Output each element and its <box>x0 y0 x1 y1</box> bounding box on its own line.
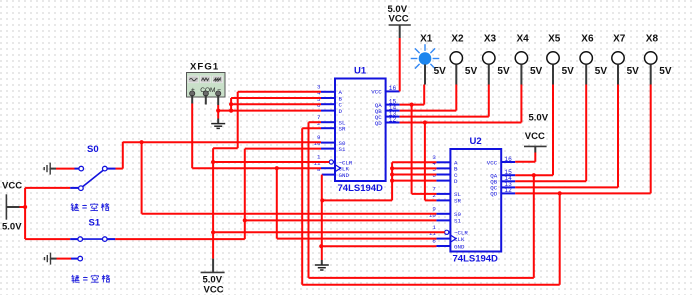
XFG1 waveform buttons <box>188 76 198 83</box>
svg-text:X4: X4 <box>517 34 530 45</box>
power VCC bottom bar <box>201 271 225 273</box>
switch S0 throw1 terminal <box>79 166 84 171</box>
svg-text:5.0V: 5.0V <box>2 222 22 233</box>
switch S1 blade <box>83 238 103 240</box>
wire S0 ground red <box>56 168 75 170</box>
wire S1 rail <box>115 238 245 240</box>
svg-text:QD: QD <box>375 120 382 127</box>
wire X1 riser <box>423 85 425 105</box>
wire D row <box>218 110 321 112</box>
wire S1 to U2 S1 <box>245 219 437 221</box>
node U1 QA junction <box>410 103 414 107</box>
wire X5 riser <box>552 85 554 176</box>
wire U1 QB row <box>400 110 457 112</box>
wire A feed down <box>237 92 239 148</box>
wire U1 QD row <box>400 122 522 124</box>
svg-text:QD: QD <box>490 191 497 198</box>
svg-text:X2: X2 <box>451 34 464 45</box>
node U2 QA junction <box>532 173 536 177</box>
wire feedback QA2 horizontal <box>309 277 534 279</box>
XFG1 com terminal stem <box>205 95 207 105</box>
svg-text:X8: X8 <box>646 34 659 45</box>
svg-text:5.0V: 5.0V <box>529 113 549 124</box>
wire blue S1 throw1 <box>70 238 78 240</box>
svg-text:74LS194D: 74LS194D <box>338 183 384 194</box>
wire VCC to S0 throw <box>25 187 70 189</box>
U1 right pin stubs <box>386 90 400 92</box>
svg-text:5V: 5V <box>595 66 608 77</box>
svg-text:5V: 5V <box>434 66 447 77</box>
wire S0 pole blue <box>107 168 115 170</box>
svg-text:5V: 5V <box>562 66 575 77</box>
XFG1 body <box>187 73 226 98</box>
svg-text:CLK: CLK <box>454 236 465 243</box>
switch S0 blade <box>83 170 104 186</box>
switch S1 throw2 terminal <box>78 256 83 261</box>
wire ABCD block bottom <box>322 199 392 201</box>
wire U2 B row <box>392 167 436 169</box>
svg-text:VCC: VCC <box>371 89 382 96</box>
svg-text:5V: 5V <box>659 66 672 77</box>
wire QD branch down <box>424 123 426 201</box>
node U2 D junction <box>390 179 394 183</box>
wire CLR to U2 <box>213 231 445 233</box>
wire S0 pole red <box>116 168 123 170</box>
svg-text:VCC: VCC <box>389 14 409 25</box>
XFG1 terminal circles <box>190 91 195 96</box>
wire VCC to S0 up <box>24 188 26 207</box>
svg-text:X7: X7 <box>613 34 626 45</box>
svg-text:S1: S1 <box>89 218 101 229</box>
power VCC left stem <box>6 206 19 208</box>
U1 CLR bubble <box>329 160 333 164</box>
svg-text:=: = <box>83 274 88 284</box>
wire U1 QA row <box>400 104 425 106</box>
op-amp U1 74LS194D chip body <box>335 79 386 182</box>
node U1 QD junction <box>423 120 427 124</box>
wire X2 riser <box>455 85 457 111</box>
U2 CLR bubble <box>445 230 449 234</box>
wire QD to U2 SR <box>425 199 437 201</box>
svg-text:6: 6 <box>432 172 436 179</box>
wire QA2 branch down <box>533 175 535 278</box>
node XFG minus junction <box>216 109 220 113</box>
svg-text:2: 2 <box>317 120 321 127</box>
wire blue S0 throw2 <box>70 187 78 189</box>
XFG1 minus terminal stem <box>217 95 219 105</box>
node S1 branch junction <box>243 218 247 222</box>
power VCC U1 bar <box>389 24 411 26</box>
wire CLR vertical <box>212 148 214 258</box>
wire XFG plus down <box>191 104 193 169</box>
wire U2 QB row <box>515 180 586 182</box>
svg-text:S1: S1 <box>339 146 346 153</box>
switch S0 pole terminal <box>103 166 108 171</box>
ground XFG1 <box>211 119 225 129</box>
wire A feed jog <box>213 147 238 149</box>
svg-text:74LS194D: 74LS194D <box>453 254 499 265</box>
power VCC bottom stem <box>212 259 214 273</box>
wire VCC to S1 down <box>24 207 26 239</box>
node U2 C junction <box>390 172 394 176</box>
wire QA to U2 SL <box>412 193 437 195</box>
wire QD2 branch down <box>559 193 561 284</box>
node C row junction <box>229 102 233 106</box>
switch S1 pole terminal <box>103 237 108 242</box>
switch S0 throw2 terminal <box>79 186 84 191</box>
svg-text:D: D <box>339 108 343 115</box>
svg-text:X1: X1 <box>420 34 433 45</box>
svg-text:S0: S0 <box>87 144 99 155</box>
wire CLK down to U2 <box>276 168 278 238</box>
svg-text:SR: SR <box>339 126 346 133</box>
wire S1 to U1 S1 <box>245 148 321 150</box>
wire X6 riser <box>585 85 587 182</box>
svg-text:U2: U2 <box>470 136 482 147</box>
wire U2 ABCD vertical <box>391 162 393 200</box>
wire feedback QD2 horizontal <box>302 284 560 286</box>
node VCC left junction <box>23 205 27 209</box>
wire S1 ground stem <box>51 258 57 260</box>
XFG1 plus terminal stem <box>191 95 193 104</box>
wire S1 ground red <box>57 258 72 260</box>
power VCC U2 stem <box>534 146 536 152</box>
switch S1 throw1 terminal <box>78 237 83 242</box>
node D row junction <box>229 109 233 113</box>
wire U2 QD row <box>515 192 651 194</box>
wire CLK to U2 CLK <box>277 238 437 240</box>
wire S1 pole blue <box>107 238 115 240</box>
wire GND to U2 GND <box>321 245 436 247</box>
svg-text:U1: U1 <box>354 66 367 77</box>
wire BCD vertical <box>230 98 232 111</box>
wire VCC U2 to pin16 <box>515 161 535 163</box>
svg-text:12: 12 <box>504 187 512 194</box>
svg-text:5V: 5V <box>530 66 543 77</box>
wire QA branch down <box>411 105 413 194</box>
svg-text:5V: 5V <box>627 66 640 77</box>
wire VCC to U1 pin16 <box>399 38 401 91</box>
svg-text:GND: GND <box>454 243 465 250</box>
power VCC U2 bar <box>524 145 547 147</box>
wire CLK to U1 <box>192 167 321 169</box>
power VCC left bar <box>5 194 7 219</box>
svg-text:X5: X5 <box>548 34 561 45</box>
wire U1 SR row <box>302 127 321 129</box>
svg-text:VCC: VCC <box>487 159 498 166</box>
wire S0 ground blue <box>75 168 79 170</box>
power VCC U1 stem <box>399 25 401 38</box>
svg-text:VCC: VCC <box>525 131 545 142</box>
node CLR U1 junction <box>211 160 215 164</box>
svg-text:VCC: VCC <box>2 181 22 192</box>
wire S0 branch down <box>141 142 143 214</box>
ground S0 <box>44 163 50 175</box>
wire X7 riser <box>617 85 619 188</box>
svg-text:11: 11 <box>429 230 436 237</box>
wire A row <box>238 91 321 93</box>
wire feedback QA2 riser <box>308 122 310 278</box>
wire S0 rail <box>123 141 321 143</box>
wire U2 C row <box>392 174 436 176</box>
svg-text:S1: S1 <box>454 218 461 225</box>
node GND U2 junction <box>319 244 323 248</box>
wire XFG minus down <box>217 105 219 119</box>
svg-text:VCC: VCC <box>204 285 224 295</box>
wire VCC U2 down <box>534 153 536 162</box>
switch S0 key label <box>71 203 79 211</box>
node U2 QD junction <box>558 191 562 195</box>
wire U1 QC row <box>400 116 489 118</box>
wire C row <box>231 103 321 105</box>
wire S1 ground blue <box>71 258 78 260</box>
wire U2 D row <box>392 180 436 182</box>
U1 CLK wedge <box>335 165 341 172</box>
wire feedback QD2 riser <box>301 128 303 285</box>
wire S1 vertical <box>244 149 246 240</box>
wire S0 ground stem <box>50 168 56 170</box>
node CLR U2 junction <box>211 230 215 234</box>
ground S1 <box>45 253 51 265</box>
wire CLR to U1 <box>213 161 329 163</box>
U1 left pin stubs <box>321 91 335 93</box>
wire VCC left stub <box>20 206 26 208</box>
svg-text:16: 16 <box>504 156 512 163</box>
svg-text:=: = <box>82 202 87 212</box>
svg-text:D: D <box>454 178 458 185</box>
wire S0 pole up <box>122 142 124 169</box>
switch S1 key label <box>71 275 79 283</box>
wire U1 GND down <box>321 175 323 260</box>
node S0 rail junction <box>140 140 144 144</box>
op-amp U2 74LS194D chip body <box>450 149 501 252</box>
svg-text:12: 12 <box>389 116 397 123</box>
wire U1 SL row <box>309 121 322 123</box>
wire U2 QC row <box>515 186 618 188</box>
svg-text:GND: GND <box>339 172 350 179</box>
svg-text:SR: SR <box>454 198 461 205</box>
wire B row <box>231 97 321 99</box>
node GND SR-row junction <box>320 198 324 202</box>
svg-text:XFG1: XFG1 <box>190 62 219 73</box>
wire S0 to U2 S0 <box>142 213 437 215</box>
node U2 B junction <box>390 166 394 170</box>
svg-text:16: 16 <box>389 85 397 92</box>
node CLK junction <box>275 166 279 170</box>
wire U2 QA row <box>515 174 553 176</box>
U2 left pin stubs <box>436 161 450 163</box>
U2 CLK wedge <box>450 235 456 242</box>
wire U2 A row <box>392 161 436 163</box>
wire X4 riser <box>520 85 522 123</box>
wire VCC to S1 throw <box>25 238 70 240</box>
svg-text:X3: X3 <box>484 34 497 45</box>
wire X3 riser <box>488 85 490 117</box>
svg-text:5V: 5V <box>465 66 478 77</box>
svg-text:5V: 5V <box>497 66 510 77</box>
wire X8 riser <box>650 85 652 194</box>
svg-text:X6: X6 <box>581 34 594 45</box>
ground shared <box>315 260 329 270</box>
U2 right pin stubs <box>501 161 515 163</box>
